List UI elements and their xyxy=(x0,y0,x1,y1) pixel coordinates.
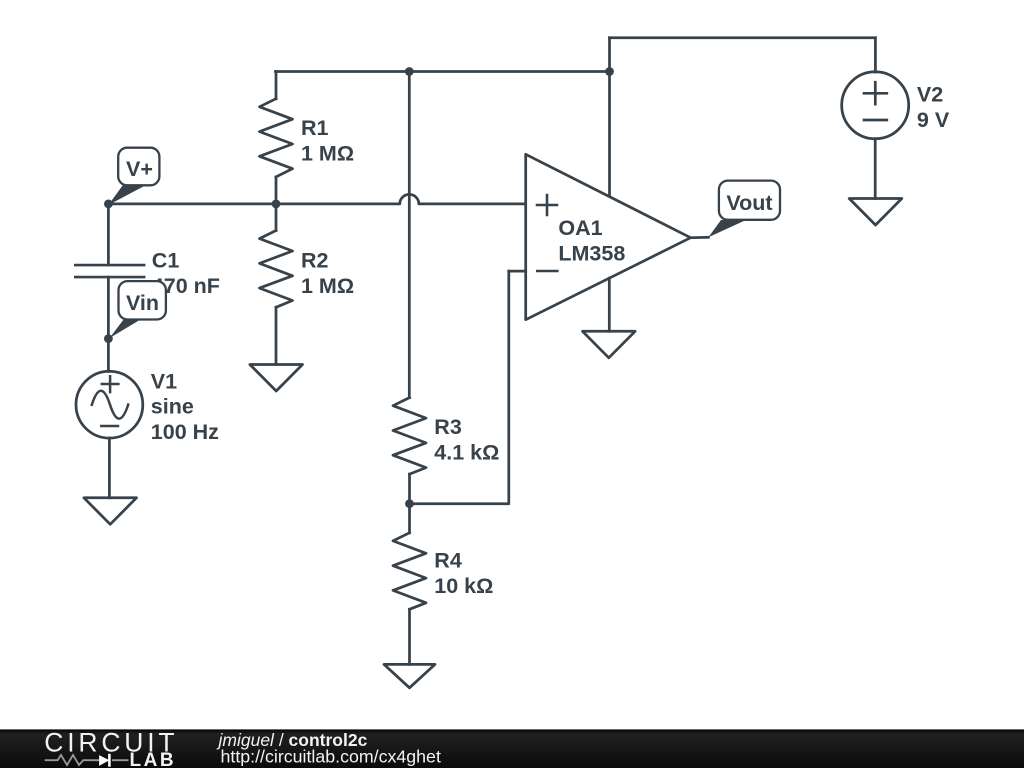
capacitor C1 xyxy=(75,264,144,267)
svg-text:V+: V+ xyxy=(126,157,153,181)
wire R1 bottom lead xyxy=(275,177,278,204)
svg-text:R4: R4 xyxy=(434,549,462,573)
ground V1 xyxy=(84,498,137,525)
ground op-amp xyxy=(583,331,636,358)
flag Vin pointer xyxy=(110,319,141,338)
wire top y=37.8 xyxy=(610,36,876,39)
wire C1 bottom lead xyxy=(107,277,110,339)
wire V1 top lead xyxy=(107,339,110,372)
svg-text:OA1: OA1 xyxy=(558,216,602,240)
node dot x609 y71 xyxy=(605,67,614,76)
wire op-amp V- supply xyxy=(608,278,611,331)
node dot Vin xyxy=(104,334,113,343)
svg-text:100 Hz: 100 Hz xyxy=(151,420,219,444)
flag Vout box xyxy=(719,181,780,220)
wire V1 bottom lead xyxy=(108,438,111,498)
footer bar xyxy=(0,729,1024,768)
op-amp plus input symbol xyxy=(537,195,557,215)
V1 minus xyxy=(101,425,118,428)
svg-text:10 kΩ: 10 kΩ xyxy=(434,574,493,598)
svg-text:R3: R3 xyxy=(434,415,462,439)
wire op-amp output xyxy=(691,236,709,239)
ground V2 xyxy=(849,199,902,226)
op-amp minus input stub xyxy=(509,270,526,273)
wire V2 bottom lead xyxy=(874,139,877,199)
svg-text:Vout: Vout xyxy=(726,191,772,215)
node dot x409 y71 xyxy=(405,67,414,76)
svg-text:1 MΩ: 1 MΩ xyxy=(301,274,354,298)
logo zigzag wire xyxy=(45,755,129,765)
V2 plus xyxy=(864,82,887,104)
svg-text:V2: V2 xyxy=(917,82,943,106)
wire R2 bottom lead xyxy=(275,307,278,364)
node dot R3 R4 xyxy=(405,499,414,508)
svg-text:R2: R2 xyxy=(301,249,329,273)
wire y=71.5 horizontal xyxy=(276,70,610,73)
op-amp OA1 triangle xyxy=(526,154,691,319)
V1 sine xyxy=(92,391,128,419)
V1 plus xyxy=(102,376,119,392)
wire y=204 with hop xyxy=(108,194,525,204)
svg-text:LAB: LAB xyxy=(130,750,177,768)
flag Vin box xyxy=(119,281,166,319)
wire op-amp V+ supply xyxy=(608,38,611,197)
wire R4 top lead xyxy=(408,504,411,533)
resistor R3 xyxy=(393,398,426,475)
source V1 circle xyxy=(76,371,143,438)
resistor R4 xyxy=(393,533,426,610)
svg-text:V1: V1 xyxy=(151,370,177,394)
V2 minus xyxy=(864,119,887,122)
svg-text:sine: sine xyxy=(151,395,194,419)
wire vertical x=409 xyxy=(408,72,411,398)
resistor R2 xyxy=(260,231,293,308)
logo diode xyxy=(99,755,109,766)
ground R2 xyxy=(250,365,303,392)
svg-text:Vin: Vin xyxy=(126,291,159,315)
svg-text:http://circuitlab.com/cx4ghet: http://circuitlab.com/cx4ghet xyxy=(221,747,441,767)
flag V+ box xyxy=(118,148,159,186)
resistor R1 xyxy=(260,99,293,177)
wire V2 drop xyxy=(874,38,877,72)
svg-text:1 MΩ: 1 MΩ xyxy=(301,141,354,165)
wire R1 top lead xyxy=(275,72,278,99)
svg-text:4.1 kΩ: 4.1 kΩ xyxy=(434,440,499,464)
op-amp minus input symbol xyxy=(537,270,557,273)
wire C1 top lead xyxy=(107,204,110,265)
svg-text:C1: C1 xyxy=(152,248,180,272)
node dot x108 y204 xyxy=(104,200,113,209)
wire R3 bottom lead xyxy=(408,474,411,504)
svg-text:R1: R1 xyxy=(301,116,329,140)
ground R4 xyxy=(384,664,435,687)
svg-text:LM358: LM358 xyxy=(558,241,625,265)
svg-text:9 V: 9 V xyxy=(917,108,950,132)
wire R4 bottom lead xyxy=(408,609,411,664)
wire feedback xyxy=(410,271,509,504)
wire R2 top lead xyxy=(275,204,278,231)
flag V+ pointer xyxy=(108,186,145,205)
flag Vout pointer xyxy=(708,220,746,237)
node dot x276 y204 xyxy=(272,200,281,209)
source V2 circle xyxy=(842,72,909,139)
